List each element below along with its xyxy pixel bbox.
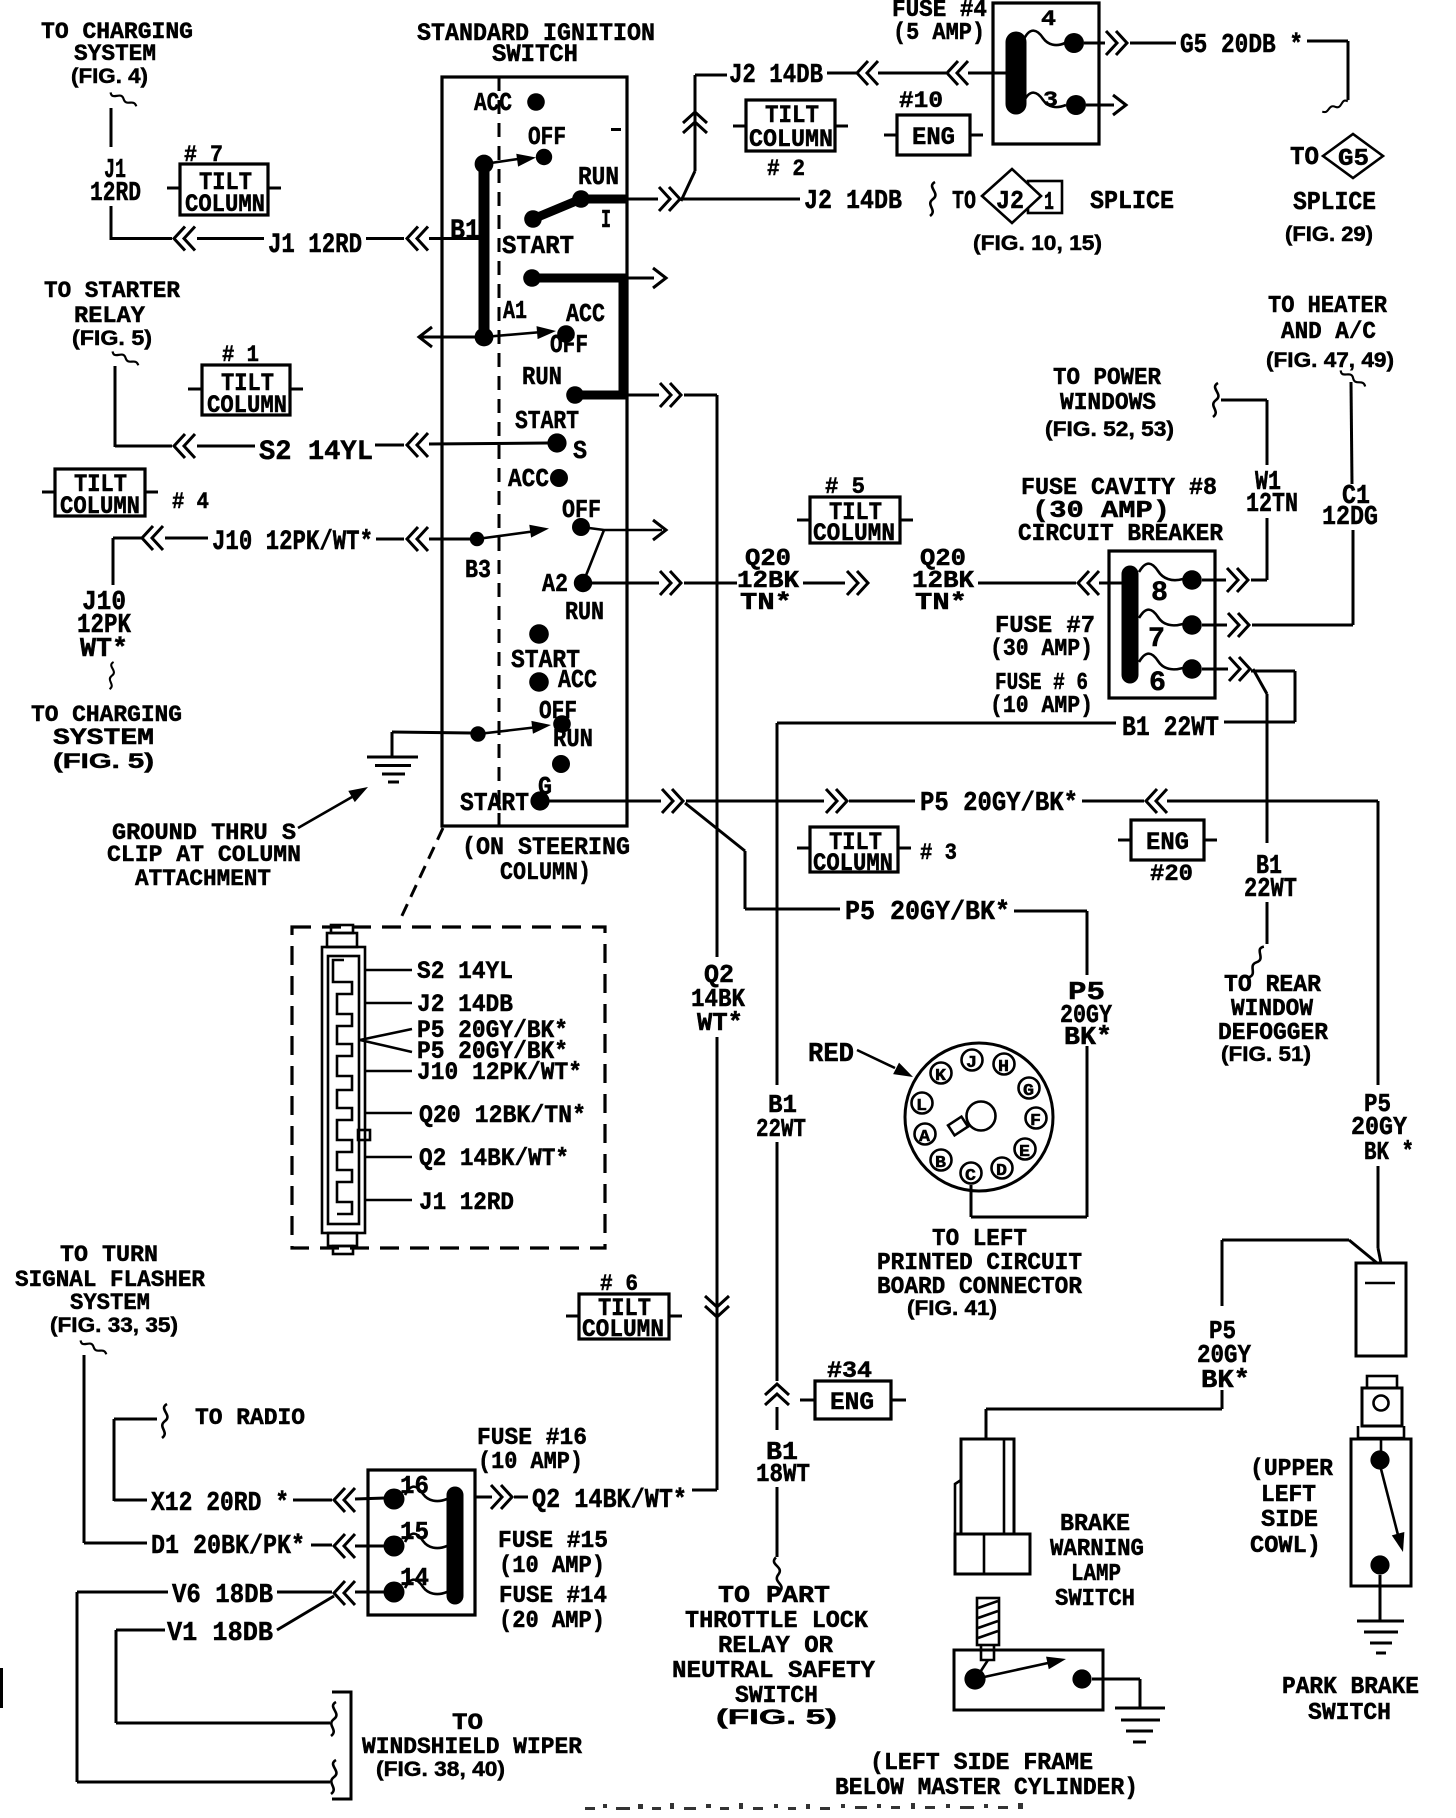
wire end squiggle (radio)	[162, 1404, 167, 1438]
wire Q20 segment	[684, 582, 737, 585]
PCB connector pin A	[915, 1124, 936, 1148]
svg-text:(10 AMP): (10 AMP)	[990, 693, 1093, 720]
svg-text:START: START	[502, 231, 574, 261]
connector symbol on S2 row 2	[407, 433, 428, 457]
svg-text:SYSTEM: SYSTEM	[74, 41, 156, 67]
label W1 12TN	[1246, 468, 1298, 520]
svg-text:# 3: # 3	[920, 840, 957, 866]
svg-text:S: S	[573, 436, 587, 466]
wire to Q2 label	[514, 1496, 528, 1499]
wire S2 14YL row	[197, 445, 255, 448]
svg-text:ACC: ACC	[558, 665, 597, 695]
wire A1 output arrow	[627, 277, 654, 280]
contact 7	[1182, 615, 1202, 635]
connector symbol contact 7	[1228, 613, 1249, 637]
stoplamp switch wiper arrow	[975, 1653, 1067, 1679]
svg-text:C: C	[965, 1167, 976, 1186]
park brake wiper arrow	[1381, 1469, 1409, 1554]
wire fuse4 output	[1084, 42, 1105, 45]
contact START pole1	[524, 210, 542, 228]
wire fuse3 output arrow	[1086, 104, 1114, 107]
label P5 20GY BK* (lamp branch)	[1197, 1316, 1251, 1395]
wire B1 22WT branch down	[1253, 669, 1267, 944]
wire J1 12RD row	[197, 237, 264, 240]
contact A2 pole3	[574, 574, 592, 592]
svg-text:TO PART: TO PART	[718, 1583, 830, 1610]
wire S2 14YL drop	[115, 366, 172, 447]
label TO CHARGING SYSTEM (FIG. 4)	[41, 19, 193, 88]
svg-text:RUN: RUN	[553, 724, 593, 754]
ignition switch B1 bus bar	[479, 164, 490, 337]
svg-text:COLUMN: COLUMN	[813, 519, 895, 548]
wire end squiggle (power windows)	[1213, 383, 1218, 417]
wire X12 into fuse block	[355, 1498, 386, 1499]
PCB connector pin H	[994, 1054, 1015, 1078]
tilt column connector #4	[42, 469, 209, 521]
svg-text:CIRCUIT BREAKER: CIRCUIT BREAKER	[1018, 521, 1224, 548]
contact ACC pole3	[550, 469, 568, 487]
svg-text:RUN: RUN	[522, 362, 562, 392]
label P5 20GY BK* (PCB drop)	[1060, 977, 1112, 1052]
fuse block F3/F4 body	[993, 3, 1099, 144]
svg-text:B1: B1	[450, 216, 480, 247]
wire stoplamp to ground	[1092, 1679, 1140, 1708]
stoplamp switch body	[954, 1650, 1103, 1710]
wire I row to splice	[683, 198, 800, 201]
wire C1 12DG upper	[1351, 382, 1352, 484]
connector symbol on S2 row	[174, 434, 195, 458]
svg-text:J: J	[966, 1054, 977, 1073]
svg-text:L: L	[916, 1097, 927, 1116]
label FUSE #16 (10 AMP)	[477, 1425, 587, 1476]
contact OFF pole4	[553, 715, 571, 733]
svg-text:FUSE #16: FUSE #16	[477, 1425, 587, 1452]
wire Q20 into circuit breaker	[1099, 582, 1124, 585]
node junction OFF3/A2	[589, 528, 662, 530]
leader arrow to ground symbol	[298, 781, 371, 828]
svg-text:#20: #20	[1150, 861, 1193, 887]
wire P5 right column vertical	[1378, 801, 1381, 1263]
connector symbol V6 row	[334, 1581, 355, 1605]
park brake contact lower	[1370, 1555, 1389, 1574]
svg-text:(FIG. 52, 53): (FIG. 52, 53)	[1045, 418, 1174, 441]
fuse F15 contact	[384, 1536, 405, 1557]
stoplamp switch contact left	[964, 1668, 985, 1689]
leader P5 pair	[360, 1029, 412, 1052]
svg-text:WINDSHIELD WIPER: WINDSHIELD WIPER	[362, 1734, 582, 1760]
svg-text:J1 12RD: J1 12RD	[268, 230, 362, 261]
svg-text:(FIG. 33, 35): (FIG. 33, 35)	[50, 1314, 178, 1337]
ground symbol (column clip)	[367, 757, 418, 782]
connector symbol on S output	[660, 383, 681, 407]
contact START pole4	[529, 624, 549, 644]
wire V6 segment	[277, 1591, 332, 1594]
wire C1 12DG lower	[1352, 530, 1355, 625]
svg-text:F: F	[1030, 1112, 1041, 1131]
svg-text:SWITCH: SWITCH	[1308, 1700, 1391, 1727]
label TO WINDSHIELD WIPER (FIG. 38, 40)	[362, 1710, 582, 1781]
wiper arm pole1 (B1 to OFF)	[484, 159, 518, 164]
contact OFF pole1	[536, 149, 552, 165]
PCB connector pin K	[931, 1063, 952, 1087]
svg-text:(30 AMP): (30 AMP)	[990, 636, 1093, 663]
connector symbol contact 6	[1229, 657, 1250, 681]
wire terminal G/START output row	[549, 800, 661, 803]
wire B1 vertical	[776, 723, 779, 1557]
contact G / START pole4	[530, 791, 549, 810]
wire J2 14DB to fuse block	[827, 72, 857, 75]
svg-text:SYSTEM: SYSTEM	[70, 1290, 150, 1316]
label Q20 12BK TN* (second)	[912, 546, 975, 617]
svg-text:NEUTRAL SAFETY: NEUTRAL SAFETY	[672, 1658, 876, 1685]
svg-text:# 4: # 4	[172, 489, 209, 515]
svg-text:V1 18DB: V1 18DB	[167, 1619, 273, 1649]
splice symbol J2 1	[952, 169, 1174, 255]
svg-text:7: 7	[1148, 624, 1165, 655]
svg-text:S2 14YL: S2 14YL	[417, 957, 513, 986]
svg-text:TO RADIO: TO RADIO	[195, 1405, 305, 1431]
wire S2 into switch terminal S	[429, 443, 548, 444]
svg-text:ATTACHMENT: ATTACHMENT	[135, 866, 271, 892]
label FUSE #14 (20 AMP)	[499, 1583, 607, 1635]
contact START pole2 / terminal S	[547, 433, 566, 452]
svg-text:TO STARTER: TO STARTER	[44, 278, 180, 304]
svg-text:G5 20DB *: G5 20DB *	[1180, 31, 1303, 61]
leader J1	[366, 1199, 412, 1202]
fuse F15 element	[405, 1534, 447, 1548]
wire end squiggle (wiper feed 2)	[331, 1760, 336, 1794]
label Q20 12BK TN* (first)	[737, 546, 800, 617]
tilt column connector #5	[797, 474, 913, 548]
wire S2 row segment 2	[375, 444, 404, 447]
fuse F14 contact	[384, 1582, 405, 1603]
svg-text:B3: B3	[465, 555, 491, 585]
wire Q20 segment 3	[978, 582, 1076, 585]
svg-text:#10: #10	[899, 88, 943, 114]
connector symbol contact 8	[1227, 568, 1248, 592]
scan artifact speck	[611, 128, 621, 131]
wire V6 18DB row	[77, 1591, 168, 1594]
svg-text:(UPPER: (UPPER	[1250, 1456, 1334, 1483]
svg-text:Q2 14BK/WT*: Q2 14BK/WT*	[532, 1486, 687, 1516]
svg-text:22WT: 22WT	[1244, 875, 1297, 905]
svg-text:WT*: WT*	[80, 635, 128, 665]
svg-text:OFF: OFF	[562, 495, 601, 525]
svg-text:TO: TO	[1290, 142, 1319, 172]
svg-text:TO LEFT: TO LEFT	[932, 1226, 1027, 1253]
wire B1 22WT long row	[777, 722, 1116, 725]
svg-text:LEFT: LEFT	[1261, 1482, 1316, 1509]
svg-text:BK *: BK *	[1364, 1137, 1414, 1167]
wire V1 18DB left elbow	[116, 1630, 330, 1723]
contact ACC pole1	[527, 93, 545, 111]
wire contact 6 output	[1202, 668, 1228, 671]
svg-text:J10 12PK/WT*: J10 12PK/WT*	[212, 527, 373, 558]
svg-text:D: D	[996, 1162, 1007, 1181]
wire ground to pole4 pivot	[392, 732, 471, 757]
connector symbol J2 row 2	[947, 61, 968, 85]
svg-text:Q20 12BK/TN*: Q20 12BK/TN*	[419, 1101, 586, 1130]
ignition switch SW1 body	[442, 77, 627, 826]
contact 6	[1182, 659, 1202, 679]
svg-text:COLUMN: COLUMN	[749, 125, 833, 154]
wiper arm pole4	[478, 727, 538, 734]
svg-text:P5 20GY/BK*: P5 20GY/BK*	[920, 789, 1078, 819]
svg-text:V6 18DB: V6 18DB	[172, 1581, 273, 1611]
wire P5 row 1 segment 2	[1082, 800, 1144, 803]
park brake switch plug	[1358, 1376, 1404, 1438]
park brake contact upper	[1370, 1450, 1389, 1469]
wire J2 into fuse block bus	[968, 72, 1008, 75]
wire end squiggle (turn signal)	[79, 1340, 108, 1354]
connector symbol on P5 row 1	[826, 789, 847, 813]
wire Q2 14BK/WT vertical	[684, 395, 717, 1490]
label BRAKE WARNING LAMP SWITCH	[1050, 1511, 1144, 1613]
label FUSE CAVITY #8 (30 AMP) CIRCUIT BREAKER	[1018, 475, 1224, 548]
fuse block F14-F16 body	[368, 1470, 475, 1615]
park brake switch body	[1351, 1439, 1411, 1586]
svg-text:TO REAR: TO REAR	[1224, 972, 1322, 999]
wire end squiggle (to charging system fig5)	[110, 662, 114, 689]
label TO PART THROTTLE LOCK RELAY OR NEUTRAL SAFETY SWITCH (FIG. 5)	[672, 1583, 876, 1729]
svg-text:BRAKE: BRAKE	[1060, 1511, 1130, 1538]
svg-text:COLUMN): COLUMN)	[500, 858, 591, 887]
svg-text:WINDOWS: WINDOWS	[1060, 390, 1156, 417]
fuse F16 contact	[384, 1489, 405, 1510]
svg-text:BK*: BK*	[1064, 1022, 1112, 1052]
svg-text:12DG: 12DG	[1322, 503, 1378, 533]
svg-text:12TN: 12TN	[1246, 490, 1298, 520]
wire G5 to splice squiggle	[1307, 41, 1348, 100]
svg-text:TN*: TN*	[915, 590, 967, 617]
svg-text:22WT: 22WT	[756, 1114, 806, 1144]
connector symbol on Q20 row right	[1078, 571, 1099, 595]
svg-text:TO: TO	[452, 1710, 483, 1736]
leader J10	[366, 1070, 412, 1073]
svg-text:SPLICE: SPLICE	[1090, 186, 1174, 216]
svg-text:(FIG. 41): (FIG. 41)	[907, 1297, 997, 1320]
wire fuse16 output	[475, 1496, 492, 1499]
tilt column connector #6	[566, 1271, 682, 1344]
svg-text:WINDOW: WINDOW	[1231, 996, 1314, 1023]
wire end squiggle (starter relay)	[111, 351, 140, 365]
svg-text:ACC: ACC	[566, 299, 605, 329]
svg-text:J2: J2	[996, 186, 1024, 216]
svg-text:OFF: OFF	[528, 122, 566, 152]
park brake switch stem	[1380, 1438, 1383, 1452]
PCB connector pin G	[1019, 1078, 1040, 1102]
svg-text:ENG: ENG	[830, 1388, 874, 1417]
svg-text:BELOW MASTER CYLINDER): BELOW MASTER CYLINDER)	[835, 1775, 1138, 1802]
fuse F4 contact	[1064, 33, 1084, 53]
dashed leader to column connector detail	[399, 828, 443, 922]
svg-text:(FIG. 29): (FIG. 29)	[1285, 223, 1373, 246]
svg-text:(FIG. 38, 40): (FIG. 38, 40)	[376, 1758, 505, 1781]
svg-text:OFF: OFF	[539, 696, 577, 726]
wire J10 row	[165, 537, 208, 540]
svg-text:ACC: ACC	[508, 464, 549, 494]
wire C1 12DG to contact 7	[1252, 624, 1353, 627]
leader J2	[366, 1002, 412, 1005]
PCB connector pin B	[931, 1150, 952, 1174]
stoplamp switch plunger link	[977, 1660, 988, 1677]
wiper arm pole2 (B1 to ACC)	[484, 332, 542, 337]
svg-text:(FIG. 10, 15): (FIG. 10, 15)	[973, 232, 1102, 255]
svg-text:18WT: 18WT	[756, 1459, 810, 1489]
svg-text:(20 AMP): (20 AMP)	[499, 1608, 605, 1635]
connector symbol on J1 row	[174, 227, 195, 251]
bracket windshield wiper	[332, 1692, 351, 1799]
label B1 22WT (vertical)	[756, 1090, 806, 1144]
svg-text:COLUMN: COLUMN	[207, 391, 287, 420]
svg-text:J2 14DB: J2 14DB	[729, 61, 823, 91]
PCB connector center key	[948, 1102, 995, 1136]
wire D1 20BK/PK drop	[84, 1355, 147, 1543]
svg-text:G5: G5	[1338, 146, 1369, 173]
wire terminal I output row	[627, 198, 658, 201]
wire W1 12TN upper elbow	[1221, 400, 1267, 465]
svg-text:B1 22WT: B1 22WT	[1122, 713, 1219, 744]
PCB connector pin E	[1015, 1139, 1036, 1163]
splice symbol G5	[1285, 134, 1383, 246]
PCB connector pin F	[1026, 1108, 1047, 1132]
label TO REAR WINDOW DEFOGGER (FIG. 51)	[1218, 972, 1329, 1066]
label FUSE # 6 (10 AMP)	[990, 670, 1093, 720]
connector symbol on J10 row 2	[407, 527, 428, 551]
scan artifact bottom noise	[585, 1803, 1023, 1810]
inline connector (park brake feed)	[1356, 1263, 1406, 1356]
breaker element 8	[1139, 564, 1183, 581]
label GROUND THRU S CLIP AT COLUMN ATTACHMENT	[107, 820, 301, 892]
label TO TURN SIGNAL FLASHER SYSTEM (FIG. 33, 35)	[15, 1242, 205, 1337]
scan artifact left edge	[0, 1668, 3, 1708]
wire J1 into switch terminal B1	[429, 237, 479, 240]
svg-text:J10 12PK/WT*: J10 12PK/WT*	[417, 1058, 582, 1087]
ground symbol (park brake)	[1357, 1621, 1404, 1653]
wire end squiggle (defogger)	[1249, 945, 1265, 979]
svg-text:OFF: OFF	[550, 330, 588, 360]
connector symbol X12 row	[334, 1488, 355, 1512]
column connector terminal meander	[333, 960, 352, 1214]
svg-text:J1 12RD: J1 12RD	[419, 1188, 514, 1217]
svg-text:6: 6	[1149, 668, 1166, 699]
contact OFF pole3	[572, 518, 590, 536]
wire branch diagonal to P5 row 2	[685, 803, 840, 909]
stoplamp switch contact right	[1072, 1669, 1091, 1688]
svg-text:(FIG. 47, 49): (FIG. 47, 49)	[1266, 349, 1394, 372]
wire contact 8 output	[1202, 579, 1226, 582]
contact ACC pole2	[557, 325, 575, 343]
svg-text:COWL): COWL)	[1250, 1533, 1321, 1560]
svg-text:RELAY OR: RELAY OR	[718, 1633, 834, 1660]
wire Q20 segment 2	[803, 582, 845, 585]
svg-text:WT*: WT*	[697, 1008, 743, 1038]
fuse block bus bar	[1006, 42, 1027, 104]
wire J10 into switch pivot B3	[429, 538, 470, 541]
svg-text:COLUMN: COLUMN	[582, 1315, 664, 1344]
svg-text:X12 20RD *: X12 20RD *	[151, 1489, 289, 1519]
wire end squiggle (J2 splice)	[930, 182, 935, 216]
contact RUN pole1 / terminal I	[572, 190, 590, 208]
column connector detail dashed box	[292, 927, 605, 1248]
svg-text:TO POWER: TO POWER	[1053, 365, 1162, 392]
label (ON STEERING COLUMN)	[462, 833, 630, 887]
svg-text:FUSE #15: FUSE #15	[498, 1528, 608, 1555]
svg-text:P5 20GY/BK*: P5 20GY/BK*	[845, 898, 1010, 928]
circuit breaker CB1 body	[1109, 551, 1215, 698]
connector symbol D1 row	[334, 1534, 355, 1558]
wire end squiggle (heater)	[1339, 370, 1367, 386]
label TO CHARGING SYSTEM (FIG. 5)	[31, 702, 182, 773]
connector symbol on I row	[659, 187, 680, 211]
svg-text:CLIP AT COLUMN: CLIP AT COLUMN	[107, 842, 301, 868]
wire J1 12RD drop	[111, 108, 172, 240]
svg-text:A2: A2	[542, 569, 568, 599]
wire end squiggle (wiper feed 1)	[331, 1702, 336, 1736]
wire D1 segment	[311, 1544, 332, 1547]
svg-text:RED: RED	[808, 1040, 854, 1070]
wiper arm pole3 (B3 to OFF)	[477, 531, 536, 539]
label B1 18WT	[756, 1437, 810, 1489]
wire TO RADIO branch	[114, 1419, 157, 1501]
svg-text:Q2 14BK/WT*: Q2 14BK/WT*	[419, 1144, 569, 1173]
svg-text:PRINTED CIRCUIT: PRINTED CIRCUIT	[877, 1250, 1082, 1277]
wire terminal S output row	[584, 394, 659, 397]
wire contact 7 output	[1202, 624, 1227, 627]
fuse F4 element	[1024, 31, 1065, 45]
label C1 12DG	[1322, 482, 1378, 533]
svg-text:SWITCH: SWITCH	[492, 40, 578, 69]
svg-text:FUSE #14: FUSE #14	[499, 1583, 607, 1610]
thick wire RUN to terminal I (box edge)	[581, 195, 627, 204]
svg-text:(FIG. 5): (FIG. 5)	[53, 750, 154, 773]
svg-text:4: 4	[1041, 7, 1056, 32]
ignition switch internal dashed divider	[498, 77, 501, 826]
connector symbol on START row	[662, 789, 683, 813]
svg-text:(LEFT SIDE FRAME: (LEFT SIDE FRAME	[870, 1750, 1093, 1777]
stoplamp switch plunger (hatched screw)	[977, 1598, 999, 1660]
svg-text:8: 8	[1151, 578, 1168, 609]
svg-text:TO: TO	[952, 186, 976, 216]
label (LEFT SIDE FRAME BELOW MASTER CYLINDER)	[835, 1750, 1138, 1802]
svg-text:THROTTLE LOCK: THROTTLE LOCK	[685, 1608, 869, 1635]
svg-text:BK*: BK*	[1201, 1365, 1250, 1395]
svg-text:(FIG. 5): (FIG. 5)	[72, 327, 152, 350]
connector symbol on J10 row	[142, 526, 163, 550]
wire V6 18DB left elbow	[77, 1592, 330, 1782]
wire V1 18DB diagonal	[277, 1596, 334, 1630]
svg-text:B: B	[935, 1154, 946, 1173]
tilt column connector #1	[188, 342, 303, 420]
svg-text:D1 20BK/PK*: D1 20BK/PK*	[151, 1532, 305, 1562]
svg-text:ACC: ACC	[474, 88, 512, 118]
svg-text:(FIG. 5): (FIG. 5)	[716, 1706, 837, 1729]
wire D1 into fuse block	[355, 1545, 386, 1548]
wire J1 12RD row segment 2	[366, 237, 404, 240]
wire terminal A2 output row	[592, 582, 659, 585]
svg-text:RUN: RUN	[565, 597, 604, 627]
svg-text:(10 AMP): (10 AMP)	[499, 1553, 605, 1580]
breaker element 6	[1139, 654, 1183, 670]
svg-text:SYSTEM: SYSTEM	[53, 725, 154, 751]
fuse F3 element	[1024, 93, 1066, 107]
svg-text:ENG: ENG	[912, 123, 955, 152]
wire START row segment	[686, 800, 824, 803]
connector symbol J2 row 1	[857, 61, 878, 85]
label RED with leader arrow	[808, 1040, 916, 1083]
wire end squiggle (throttle lock)	[771, 1557, 785, 1591]
label Q2 14BK WT* (vertical wire)	[691, 960, 745, 1038]
